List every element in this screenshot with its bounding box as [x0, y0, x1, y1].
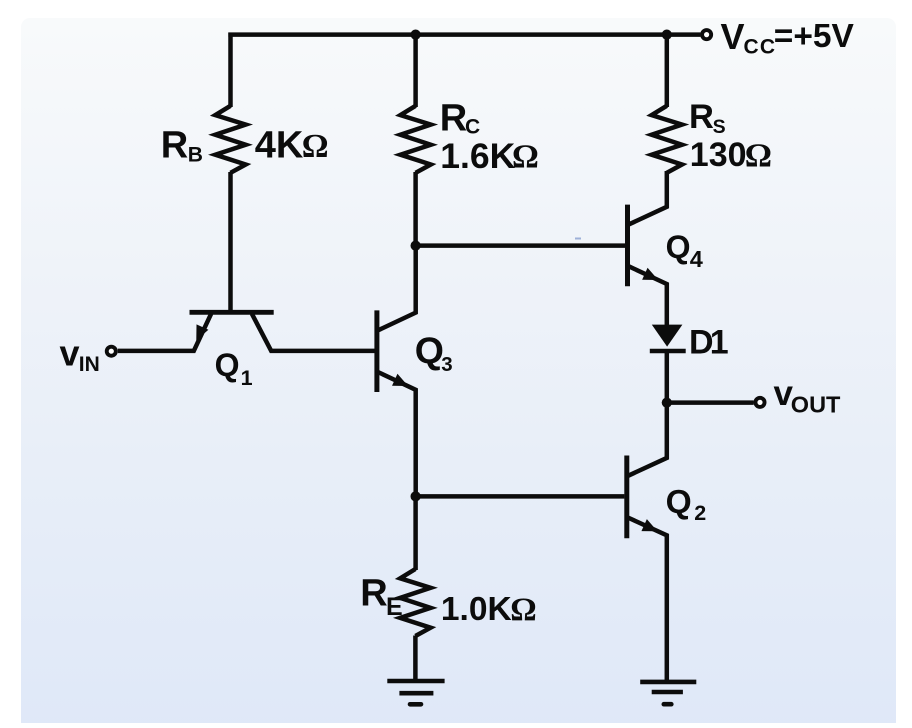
svg-text:R: R — [440, 98, 467, 140]
label value 130Ω — [690, 136, 772, 174]
svg-text:1: 1 — [241, 366, 253, 390]
svg-text:B: B — [188, 144, 203, 167]
svg-text:=+5V: =+5V — [774, 18, 855, 55]
svg-text:1.6K: 1.6K — [440, 136, 515, 176]
svg-text:4: 4 — [690, 246, 703, 272]
label v_IN — [60, 333, 100, 377]
transistor Q1 — [118, 312, 376, 351]
label v_OUT — [774, 374, 842, 417]
transistor Q2 — [627, 401, 667, 682]
wire Q4 base — [416, 243, 625, 248]
label Q4 — [666, 229, 703, 272]
transistor Q3 emitter arrow — [393, 375, 407, 386]
svg-text:Q: Q — [415, 329, 444, 371]
wire R_C top lead — [413, 33, 418, 108]
wire R_S top lead — [665, 33, 670, 108]
wire R_B top lead — [228, 33, 233, 108]
label value 1.0KΩ — [441, 591, 537, 628]
node junction top rail / R_S — [662, 29, 672, 39]
svg-text:R: R — [161, 125, 188, 167]
diode D1 — [652, 325, 683, 347]
svg-text:130: 130 — [690, 136, 747, 174]
wire R_C bottom lead to node — [413, 172, 418, 248]
label R_C — [440, 98, 480, 140]
svg-text:R: R — [360, 572, 387, 614]
svg-text:OUT: OUT — [791, 391, 841, 417]
wire R_E bottom lead — [413, 636, 418, 682]
wire R_E top lead — [413, 495, 418, 571]
resistor R_S — [652, 106, 682, 173]
svg-text:Q: Q — [215, 347, 240, 383]
label D1 — [689, 323, 729, 361]
label value 4KΩ — [255, 125, 329, 167]
artifact: faint blue speck left of Q4 base — [575, 238, 581, 240]
label Q3 — [415, 329, 453, 376]
svg-text:Ω: Ω — [302, 128, 329, 165]
terminal v_OUT — [755, 398, 764, 407]
svg-text:4K: 4K — [255, 125, 304, 167]
label R_S — [689, 98, 726, 138]
transistor Q4 — [628, 171, 667, 327]
transistor Q1 emitter arrow — [197, 325, 208, 339]
node junction top rail / R_C — [411, 29, 421, 39]
svg-text:3: 3 — [441, 353, 452, 376]
svg-text:2: 2 — [694, 501, 706, 525]
wire R_B bottom lead — [228, 172, 233, 313]
ground (right, under Q2) — [640, 682, 696, 704]
label Q1 — [215, 347, 253, 390]
transistor Q2 emitter arrow — [642, 520, 656, 531]
svg-text:Ω: Ω — [745, 137, 772, 174]
label Q2 — [666, 484, 707, 525]
resistor R_B — [215, 106, 245, 173]
wire v_OUT stub — [667, 400, 754, 405]
transistor Q4 emitter arrow — [643, 269, 657, 280]
svg-text:Ω: Ω — [510, 592, 536, 628]
svg-text:1: 1 — [710, 323, 729, 361]
svg-text:V: V — [721, 16, 745, 57]
node junction v_OUT — [662, 398, 672, 408]
svg-text:Q: Q — [666, 229, 691, 265]
terminal Vcc — [702, 30, 711, 39]
svg-text:1.0K: 1.0K — [441, 591, 512, 628]
label R_E — [360, 572, 402, 621]
label Vcc=+5V — [721, 16, 855, 58]
wire D1 cathode to v_OUT node — [665, 352, 670, 405]
terminal v_IN — [107, 347, 116, 356]
ground (left, under R_E) — [387, 681, 444, 704]
transistor Q3 — [377, 247, 416, 498]
svg-text:IN: IN — [79, 353, 100, 376]
svg-text:v: v — [60, 333, 80, 374]
wire Q2 base — [416, 494, 625, 499]
label value 1.6KΩ — [440, 136, 539, 176]
resistor R_C — [400, 106, 430, 173]
node junction R_C / Q4 base — [411, 241, 421, 251]
svg-text:Ω: Ω — [512, 139, 539, 176]
svg-text:Q: Q — [666, 484, 692, 521]
wire Vcc rail — [228, 32, 700, 37]
svg-text:S: S — [713, 116, 726, 138]
svg-text:R: R — [689, 98, 714, 136]
svg-text:CC: CC — [744, 35, 776, 58]
svg-text:E: E — [386, 593, 403, 621]
resistor R_E — [400, 569, 430, 636]
node junction Q2 base / R_E — [411, 491, 421, 501]
label R_B — [161, 125, 203, 167]
